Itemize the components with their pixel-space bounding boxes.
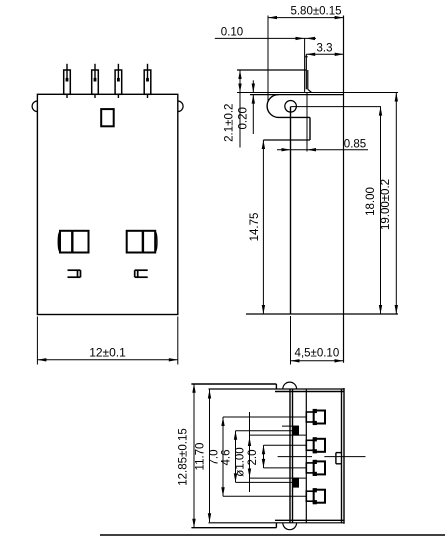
- svg-text:3.3: 3.3: [317, 43, 333, 55]
- front view lower-right latch slot: [135, 269, 148, 271]
- front view right contact window: [127, 231, 156, 253]
- svg-text:19.00±0.2: 19.00±0.2: [380, 179, 392, 230]
- bottom view inner bottom double line: [209, 522, 345, 524]
- bottom view outer top line: [191, 383, 276, 385]
- svg-text:4.6: 4.6: [221, 450, 233, 466]
- svg-text:18.00: 18.00: [365, 187, 377, 216]
- side view notch right edge: [309, 117, 311, 140]
- dim 4.6: [235, 431, 237, 483]
- bottom view top bump: [283, 382, 297, 389]
- svg-text:ø1.00: ø1.00: [235, 447, 247, 476]
- leader sq2 centre: [236, 481, 293, 483]
- bottom view right edge double: [341, 389, 343, 524]
- front view lower-left latch slot: [68, 269, 81, 271]
- pin extension line down to 0.85: [306, 93, 308, 152]
- dim 0.20: [252, 80, 254, 92]
- bottom view black square post 1: [293, 426, 299, 435]
- dim dia 1.00: [249, 412, 251, 492]
- leader sq1 bottom: [250, 434, 307, 436]
- bottom view inner wall double line: [289, 389, 291, 523]
- board edge line: [100, 534, 445, 536]
- svg-text:2.0: 2.0: [247, 450, 259, 466]
- bottom view inner top double line: [209, 388, 345, 390]
- side view shell right edge long line: [343, 16, 345, 363]
- dim 4,5+-0.10: [290, 316, 292, 365]
- front view body shell rect: [37, 94, 177, 314]
- bottom view pin 4: [306, 491, 313, 501]
- extension line left of 5.80: [267, 16, 269, 103]
- dim 3.3: [306, 53, 344, 55]
- dim 2.1+-0.2: [239, 70, 241, 148]
- bottom view bottom bump: [283, 523, 297, 530]
- front view pin 2: [92, 70, 99, 94]
- dim 12+-0.1: [37, 359, 177, 361]
- side view shell bottom: [246, 313, 398, 315]
- svg-text:12±0.1: 12±0.1: [89, 346, 126, 360]
- side view shell top edge: [237, 69, 306, 71]
- leader pin4 centre: [223, 495, 306, 497]
- svg-text:12.85±0.15: 12.85±0.15: [177, 428, 189, 485]
- front view left contact window: [60, 231, 89, 253]
- leader pin3 centre: [264, 467, 307, 469]
- hole centre leader to 18.00: [291, 106, 381, 108]
- bottom view pin base line: [305, 389, 307, 523]
- bottom view pin 3: [306, 463, 313, 473]
- svg-text:0.10: 0.10: [221, 27, 243, 39]
- leader sq2 top: [250, 477, 307, 479]
- bottom view centre line: [278, 456, 312, 458]
- dim 2.0: [263, 445, 265, 468]
- dim 18.00: [380, 107, 382, 314]
- front view top center hole rect: [101, 109, 114, 126]
- front view pin 3: [115, 70, 122, 94]
- side view body top line L1: [237, 92, 398, 94]
- bottom view outer bottom line: [191, 527, 276, 529]
- dim 12.85+-0.15: [193, 384, 195, 528]
- dim 11.70: [209, 390, 211, 523]
- leader pin1 centre: [223, 416, 306, 418]
- dim 14.75: [262, 140, 264, 314]
- leader sq1 centre: [236, 430, 293, 432]
- side view solder pins edge-on: [304, 38, 306, 92]
- dim 12+-0.1 extension lines: [36, 317, 38, 365]
- bottom view right tab bracket: [335, 453, 337, 464]
- svg-text:0.85: 0.85: [344, 139, 366, 151]
- dim 5.80+-0.15: [268, 17, 344, 19]
- side view body top line L2: [250, 94, 344, 96]
- dim 19.00+-0.2: [395, 93, 397, 315]
- dim 0.10: [215, 37, 316, 39]
- leader sq1 top: [282, 425, 299, 427]
- bottom view pin 2: [306, 440, 313, 450]
- bottom view bottom step: [275, 523, 277, 528]
- side view notch bottom + 14.75 extension: [263, 139, 310, 141]
- side view tab hole: [285, 101, 297, 113]
- bottom view top step: [275, 384, 277, 389]
- side view mounting tab rounded end: [267, 95, 278, 118]
- svg-text:11.70: 11.70: [195, 443, 207, 471]
- side view tab bottom edge: [279, 116, 311, 118]
- svg-text:5.80±0.15: 5.80±0.15: [290, 6, 341, 18]
- svg-text:0.20: 0.20: [238, 107, 250, 129]
- side view shell left edge: [290, 107, 292, 314]
- front view right side bump: [178, 101, 183, 112]
- bottom view black square post 2: [293, 478, 299, 487]
- svg-text:14.75: 14.75: [249, 213, 261, 242]
- dim 7.0: [222, 417, 224, 496]
- front view pin 4: [144, 70, 151, 94]
- bottom view pin 1: [306, 412, 313, 422]
- svg-text:4,5±0.10: 4,5±0.10: [295, 348, 340, 360]
- svg-text:7.0: 7.0: [208, 450, 220, 466]
- svg-text:2.1±0.2: 2.1±0.2: [224, 104, 236, 142]
- leader pin2 centre: [264, 444, 307, 446]
- front view pin 1: [64, 70, 71, 94]
- dim 0.85: [277, 149, 368, 151]
- front view left side bump: [32, 101, 37, 112]
